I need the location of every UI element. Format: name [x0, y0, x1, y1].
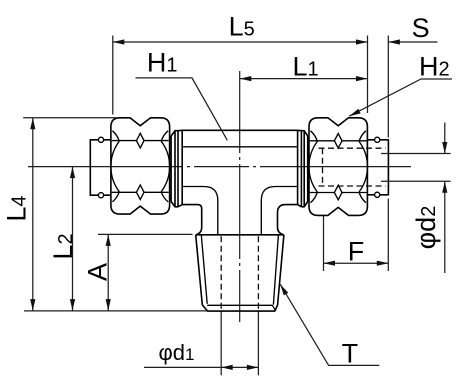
- svg-text:T: T: [342, 338, 359, 368]
- svg-text:F: F: [348, 237, 365, 267]
- svg-text:A: A: [83, 263, 113, 281]
- svg-text:S: S: [412, 13, 430, 43]
